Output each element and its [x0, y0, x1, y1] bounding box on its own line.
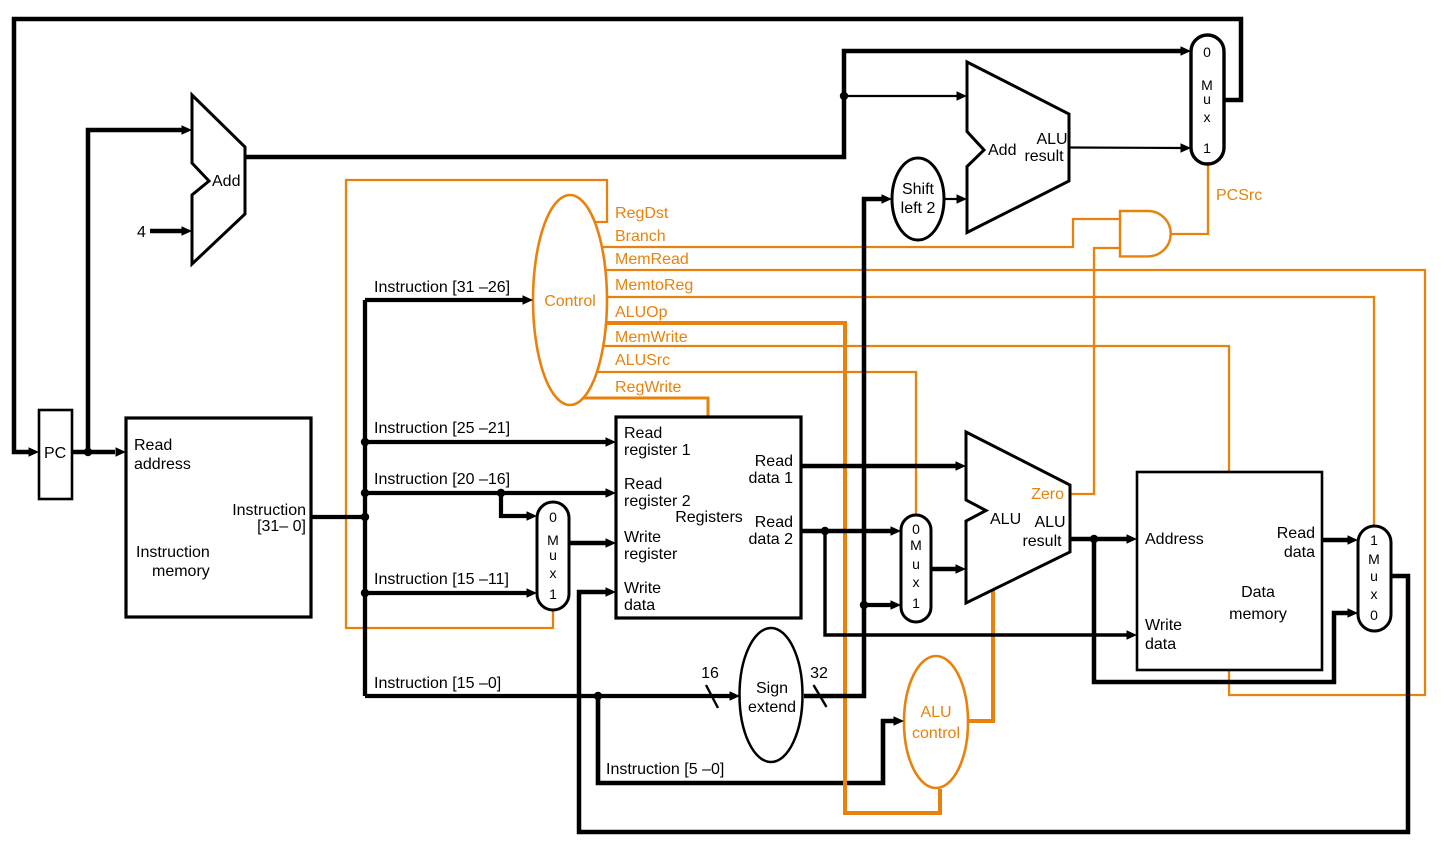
svg-text:MemtoReg: MemtoReg	[615, 277, 693, 294]
arrow into final mux input 0	[1348, 608, 1359, 618]
svg-text:Add: Add	[988, 142, 1016, 159]
junction dot read data 2 branch	[821, 527, 829, 535]
wire instruction bus vertical	[363, 300, 367, 696]
svg-text:4: 4	[137, 224, 146, 241]
svg-text:M: M	[547, 532, 559, 548]
arrow into Data memory address	[1127, 534, 1138, 544]
wire Add1 output PC+4 right then up to top mux input 0	[245, 51, 1182, 157]
svg-text:data: data	[1145, 636, 1176, 653]
wire RegWrite control down to Registers top	[570, 398, 708, 418]
svg-text:data: data	[1284, 544, 1315, 561]
svg-text:ALU: ALU	[920, 704, 951, 721]
svg-text:Write: Write	[624, 529, 661, 546]
svg-text:Zero: Zero	[1031, 486, 1064, 503]
svg-text:ALU: ALU	[1036, 131, 1067, 148]
registers box	[616, 417, 801, 618]
svg-text:M: M	[1368, 551, 1380, 567]
svg-text:MemWrite: MemWrite	[615, 329, 688, 346]
svg-text:Instruction: Instruction	[232, 502, 306, 519]
instruction memory box	[126, 418, 311, 617]
wire shift left 2 output to Add2 bottom input	[944, 198, 958, 200]
wire instruction memory output to instruction bus	[311, 515, 365, 519]
svg-text:[31– 0]: [31– 0]	[257, 518, 306, 535]
svg-text:Instruction [5 –0]: Instruction [5 –0]	[606, 761, 724, 778]
svg-text:Read: Read	[624, 425, 662, 442]
WIRES-ORANGE	[346, 165, 1425, 813]
arrow into final mux input 1	[1348, 535, 1359, 545]
wire PC feedback top border: mux output right, up, along top, down left side into PC	[14, 19, 1241, 452]
junction dot ALU result branch	[1090, 535, 1098, 543]
mux RegDst (0 Mux 1)	[537, 502, 569, 610]
wire ALUOp control bus down and into ALU control bottom	[570, 323, 940, 813]
svg-text:Instruction [15 –11]: Instruction [15 –11]	[374, 571, 509, 588]
arrow into Add1 bottom input (4)	[182, 226, 193, 236]
svg-text:ALU: ALU	[990, 511, 1021, 528]
svg-text:PC: PC	[44, 445, 66, 462]
adder Add2 branch target	[967, 62, 1069, 233]
svg-text:Instruction [15 –0]: Instruction [15 –0]	[374, 675, 501, 692]
svg-text:Sign: Sign	[756, 680, 788, 697]
arrow into ALUSrc mux input 1	[891, 600, 902, 610]
svg-text:u: u	[549, 547, 557, 563]
arrow into top mux input 0	[1181, 46, 1192, 56]
arrow into ALU top input	[956, 461, 967, 471]
junction dot instruction bus main	[361, 513, 369, 521]
svg-text:result: result	[1022, 533, 1062, 550]
arrow into Add2 top input	[957, 91, 968, 101]
wire Instruction [25-21] into Read register 1	[365, 440, 607, 444]
wire ALUSrc control down to ALUSrc mux top	[570, 372, 916, 516]
control oval	[533, 195, 607, 405]
wire ALU control output up into ALU bottom	[968, 589, 993, 721]
svg-text:u: u	[1203, 91, 1211, 107]
svg-text:1: 1	[1370, 532, 1378, 548]
wire Instruction [15-0] into sign extend	[365, 694, 731, 698]
svg-text:register 2: register 2	[624, 493, 691, 510]
arrow into PC	[29, 447, 40, 457]
wire Instruction [20-16] into Read register 2	[365, 491, 607, 495]
wire constant 4 into Add1 bottom input	[150, 229, 182, 234]
wire Read data 2 branch down to Data memory write data	[825, 531, 1128, 635]
svg-text:address: address	[134, 456, 191, 473]
svg-text:result: result	[1024, 148, 1064, 165]
svg-text:ALUSrc: ALUSrc	[615, 352, 670, 369]
arrow into Add2 bottom input	[957, 194, 968, 204]
arrow into RegDst mux input 0	[527, 511, 538, 521]
svg-text:0: 0	[1203, 44, 1211, 60]
AND gate for branch	[1120, 211, 1171, 256]
svg-text:Read: Read	[755, 453, 793, 470]
svg-text:Read: Read	[134, 437, 172, 454]
ALU main	[966, 432, 1070, 603]
wire Read data 2 into ALUSrc mux input 0	[801, 529, 892, 534]
arrow into top mux input 1	[1181, 143, 1192, 153]
wire PC+4 branch into Add2 top input	[844, 95, 958, 97]
wire MemWrite control down to Data memory top	[570, 346, 1229, 473]
slash mark 32-bit on sign extend output	[814, 685, 827, 707]
wire ALU result into Data memory address	[1070, 537, 1128, 542]
wire MemRead control: right, down right side, left, up into Data memory bottom	[570, 270, 1425, 695]
mux ALUSrc labels 0 Mux 1	[910, 521, 922, 611]
ALU control oval	[904, 656, 968, 788]
arrow into Write register	[606, 538, 617, 548]
wire sign extend output up to shift left 2 input	[804, 199, 883, 696]
svg-text:Instruction [31 –26]: Instruction [31 –26]	[374, 279, 510, 296]
junction dot instruction 5-0 tap	[594, 692, 602, 700]
mux MemtoReg (1 Mux 0)	[1358, 526, 1391, 631]
wire Instruction [31-26] into Control	[365, 298, 524, 302]
wire PC value up to Add1 top input	[88, 130, 182, 452]
slash mark 16-bit on sign extend input	[706, 685, 718, 708]
svg-text:ALU: ALU	[1034, 514, 1065, 531]
wire ALU result branch down around to final mux input 0	[1094, 539, 1349, 682]
junction dot PC output	[84, 448, 92, 456]
arrow into Add1 top input	[182, 125, 193, 135]
mux top labels 0 Mux 1	[1201, 44, 1213, 156]
arrow into instruction memory read address	[116, 447, 127, 457]
wire AND gate output PCSrc up to top mux bottom	[1171, 165, 1208, 234]
wire RegDst control: up over control, down left side, to RegDst mux bottom	[346, 180, 607, 628]
svg-text:1: 1	[549, 586, 557, 602]
arrow into sign extend	[730, 691, 741, 701]
svg-text:32: 32	[810, 665, 828, 682]
arrow into Read register 1	[606, 437, 617, 447]
svg-text:x: x	[1371, 586, 1378, 602]
adder Add1 PC+4	[192, 95, 245, 264]
svg-text:Instruction [25 –21]: Instruction [25 –21]	[374, 420, 510, 437]
junction dot 20-16 tap	[497, 489, 505, 497]
wire Branch control to AND gate top input	[570, 219, 1120, 247]
wire Add2 ALU result to top mux input 1	[1069, 146, 1182, 149]
svg-text:Address: Address	[1145, 531, 1204, 548]
svg-text:u: u	[1370, 568, 1378, 584]
svg-text:RegDst: RegDst	[615, 205, 669, 222]
wire ALUSrc mux output into ALU bottom input	[931, 567, 957, 572]
junction dot PC+4 branch	[840, 92, 848, 100]
junction dot sign extend mux tap	[860, 601, 868, 609]
svg-text:PCSrc: PCSrc	[1216, 187, 1262, 204]
PC register	[39, 410, 72, 499]
arrow into ALUSrc mux input 0	[891, 526, 902, 536]
wire Read data 1 into ALU top input	[801, 464, 957, 469]
svg-text:data 1: data 1	[749, 470, 794, 487]
mux ALUSrc (0 Mux 1)	[901, 515, 931, 622]
svg-text:data 2: data 2	[749, 531, 794, 548]
svg-text:RegWrite: RegWrite	[615, 379, 681, 396]
wire Zero flag from ALU to AND gate bottom input	[1070, 248, 1120, 494]
svg-text:extend: extend	[748, 699, 796, 716]
svg-text:Registers: Registers	[675, 509, 743, 526]
arrow into Control	[523, 295, 534, 305]
svg-text:left 2: left 2	[901, 200, 936, 217]
svg-text:control: control	[912, 725, 960, 742]
svg-text:0: 0	[912, 521, 920, 537]
svg-text:1: 1	[1203, 140, 1211, 156]
mux PCSrc top right (0 Mux 1)	[1191, 35, 1224, 164]
svg-text:Instruction: Instruction	[136, 544, 210, 561]
sign extend ellipse	[740, 628, 803, 762]
svg-text:MemRead: MemRead	[615, 251, 689, 268]
svg-text:Add: Add	[212, 173, 240, 190]
svg-text:16: 16	[701, 665, 719, 682]
wire Instruction [20-16] branch into RegDst mux input 0	[501, 493, 528, 516]
wire Instruction [5-0] into ALU control	[598, 696, 895, 783]
wire Data memory read data into final mux input 1	[1322, 538, 1349, 543]
svg-text:Control: Control	[544, 293, 596, 310]
svg-text:register 1: register 1	[624, 442, 691, 459]
wire write-back: final mux output right, down, along bottom, up into Write data	[579, 576, 1408, 832]
mux RegDst labels 0 Mux 1	[547, 509, 559, 602]
svg-text:Write: Write	[624, 580, 661, 597]
wire sign extend branch into ALUSrc mux input 1	[864, 603, 892, 607]
junction dot instruction bus 25-21	[361, 438, 369, 446]
svg-text:Read: Read	[1277, 525, 1315, 542]
svg-text:Shift: Shift	[902, 181, 935, 198]
svg-text:Write: Write	[1145, 617, 1182, 634]
svg-text:1: 1	[912, 595, 920, 611]
svg-text:ALUOp: ALUOp	[615, 304, 668, 321]
svg-text:Branch: Branch	[615, 228, 666, 245]
mux MemtoReg labels 1 Mux 0	[1368, 532, 1380, 623]
arrow into Data memory write data	[1127, 630, 1138, 640]
ARROWS-DOTS	[29, 46, 1359, 726]
svg-text:x: x	[913, 574, 920, 590]
svg-text:x: x	[550, 565, 557, 581]
svg-text:M: M	[910, 537, 922, 553]
svg-text:Data: Data	[1241, 584, 1275, 601]
arrow into RegDst mux input 1	[527, 588, 538, 598]
svg-text:Instruction [20 –16]: Instruction [20 –16]	[374, 471, 510, 488]
wire Instruction [15-11] into RegDst mux input 1	[365, 591, 528, 595]
wire PC to Instruction memory read address	[72, 450, 115, 455]
svg-text:x: x	[1204, 109, 1211, 125]
data memory box	[1137, 472, 1322, 670]
svg-text:u: u	[912, 556, 920, 572]
wire ALUOp over instruction 5-0 crossing	[845, 770, 940, 813]
svg-text:Read: Read	[755, 514, 793, 531]
arrow into shift left 2	[882, 194, 893, 204]
shift left 2 ellipse	[892, 158, 944, 240]
wire RegDst mux output into Write register	[569, 541, 607, 546]
svg-text:memory: memory	[152, 563, 210, 580]
junction dot instruction bus 20-16	[361, 489, 369, 497]
arrow into Read register 2	[606, 488, 617, 498]
svg-text:0: 0	[1370, 607, 1378, 623]
wire MemtoReg control down to final mux top	[570, 297, 1374, 527]
svg-text:memory: memory	[1229, 606, 1287, 623]
svg-text:0: 0	[549, 509, 557, 525]
junction dot instruction bus 15-11	[361, 589, 369, 597]
arrow into Write data (registers)	[606, 587, 617, 597]
svg-text:data: data	[624, 597, 655, 614]
svg-text:register: register	[624, 546, 678, 563]
svg-text:Read: Read	[624, 476, 662, 493]
arrow into ALU bottom input	[956, 564, 967, 574]
arrow into ALU control	[894, 716, 905, 726]
